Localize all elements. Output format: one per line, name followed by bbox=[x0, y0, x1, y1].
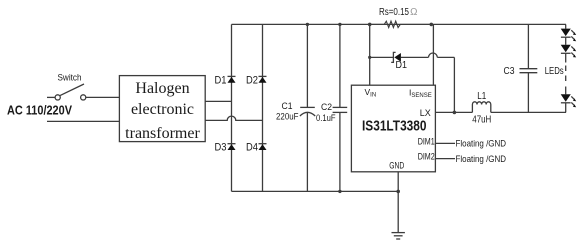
svg-text:DIM2: DIM2 bbox=[418, 152, 435, 163]
wire bbox=[435, 111, 472, 113]
LED D5 bbox=[561, 29, 577, 42]
wire bbox=[47, 96, 55, 98]
wire bbox=[565, 66, 567, 86]
wire bbox=[205, 116, 262, 120]
diode D1 (freewheel) bbox=[368, 52, 454, 71]
wire bbox=[565, 37, 567, 45]
node junction bbox=[368, 23, 372, 27]
svg-text:Floating /GND: Floating /GND bbox=[456, 139, 507, 150]
svg-text:C1: C1 bbox=[282, 101, 293, 112]
wire bbox=[369, 24, 371, 85]
svg-text:D1: D1 bbox=[215, 75, 227, 87]
switch S1 bbox=[55, 73, 86, 101]
svg-text:AC 110/220V: AC 110/220V bbox=[7, 104, 73, 118]
svg-text:D1: D1 bbox=[396, 59, 408, 71]
wire bbox=[565, 24, 567, 28]
wire bbox=[262, 24, 264, 191]
svg-text:0.1uF: 0.1uF bbox=[316, 113, 336, 124]
wire bbox=[491, 111, 566, 113]
node AC 110/220V bbox=[7, 104, 73, 118]
svg-text:47uH: 47uH bbox=[472, 114, 491, 125]
LED D6 bbox=[561, 45, 577, 58]
svg-text:Rs=0.15Ω: Rs=0.15Ω bbox=[379, 7, 418, 18]
svg-text:C2: C2 bbox=[321, 102, 332, 113]
capacitor C1 bbox=[276, 23, 315, 192]
ground bbox=[392, 233, 405, 239]
IC U1 IS31LT3380 bbox=[351, 85, 435, 172]
svg-text:Switch: Switch bbox=[58, 73, 82, 83]
wire bbox=[565, 53, 567, 62]
wire bbox=[231, 24, 233, 191]
node junction bbox=[430, 23, 434, 27]
wire bbox=[565, 103, 567, 113]
inductor L1 bbox=[472, 91, 491, 126]
svg-text:D2: D2 bbox=[246, 75, 258, 87]
svg-text:transformer: transformer bbox=[125, 125, 200, 142]
LED D7 bbox=[561, 87, 577, 108]
node junction bbox=[396, 190, 400, 194]
svg-text:DIM1: DIM1 bbox=[418, 137, 435, 148]
wire bbox=[432, 24, 434, 85]
resistor Rs bbox=[370, 7, 432, 28]
wire bbox=[453, 57, 455, 112]
svg-text:Halogen: Halogen bbox=[135, 80, 189, 97]
node junction bbox=[453, 111, 457, 115]
svg-text:Floating /GND: Floating /GND bbox=[456, 154, 507, 165]
svg-text:IS31LT3380: IS31LT3380 bbox=[362, 118, 427, 135]
wire bbox=[47, 120, 119, 122]
diode D1 bbox=[215, 75, 236, 87]
wire bbox=[435, 158, 455, 160]
svg-text:C3: C3 bbox=[504, 66, 515, 77]
wire bbox=[232, 23, 567, 25]
wire bbox=[205, 100, 231, 102]
diode D2 bbox=[246, 75, 267, 87]
svg-text:L1: L1 bbox=[477, 91, 486, 102]
wire bbox=[435, 142, 455, 144]
svg-text:GND: GND bbox=[389, 161, 404, 172]
capacitor C3 bbox=[504, 24, 538, 112]
transformer T1 bbox=[119, 76, 205, 142]
wire bbox=[232, 190, 399, 192]
svg-text:D3: D3 bbox=[215, 142, 227, 154]
diode D3 bbox=[215, 142, 236, 154]
capacitor C2 bbox=[316, 23, 347, 193]
wire bbox=[397, 172, 399, 233]
wire bbox=[86, 96, 119, 98]
diode D4 bbox=[246, 142, 267, 154]
svg-text:LEDs: LEDs bbox=[545, 66, 564, 77]
svg-text:D4: D4 bbox=[246, 142, 258, 154]
svg-text:220uF: 220uF bbox=[276, 112, 299, 123]
svg-text:electronic: electronic bbox=[131, 101, 194, 118]
